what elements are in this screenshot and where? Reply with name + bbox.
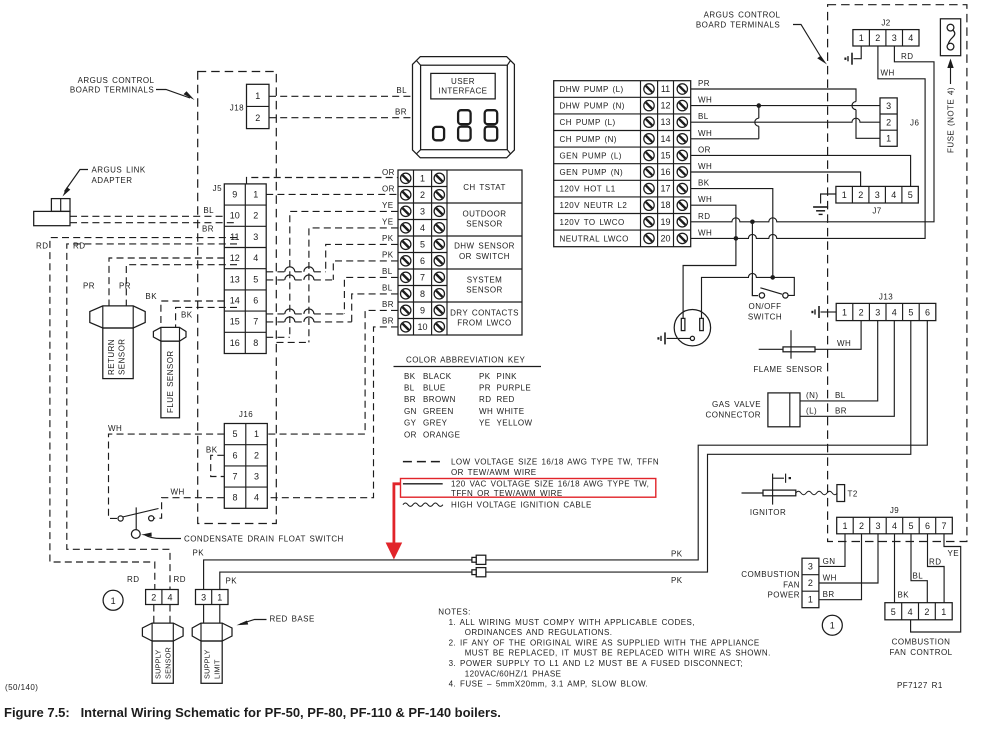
svg-text:OR: OR — [382, 184, 395, 193]
wire WH: terminal 20 to J2-2 — [691, 46, 925, 241]
svg-text:COMBUSTION: COMBUSTION — [892, 638, 951, 647]
flue sensor — [153, 327, 186, 417]
wire BL: J9-5 to fan control 2 — [911, 534, 927, 603]
svg-text:WH: WH — [171, 488, 185, 497]
wire: J5-8 stub lower — [277, 341, 309, 343]
svg-text:J7: J7 — [872, 207, 881, 216]
svg-text:20: 20 — [660, 233, 670, 243]
svg-text:3: 3 — [253, 232, 258, 242]
svg-text:BK: BK — [145, 292, 157, 301]
svg-text:YE: YE — [948, 549, 960, 558]
on/off switch — [748, 275, 794, 321]
svg-text:4. FUSE – 5mmX20mm, 3.1 A: 4. FUSE – 5mmX20mm, 3.1 AMP, SLOW BLOW. — [449, 680, 649, 689]
svg-text:ON/OFF: ON/OFF — [749, 302, 782, 311]
svg-text:4: 4 — [908, 607, 913, 617]
wire: WH junction to plug left prong — [683, 238, 736, 318]
svg-text:PR: PR — [698, 79, 710, 88]
svg-text:BL: BL — [382, 283, 393, 292]
svg-text:ORDINANCES AND REGULATIONS.: ORDINANCES AND REGULATIONS. — [465, 628, 613, 637]
svg-text:14: 14 — [230, 296, 240, 306]
svg-text:13: 13 — [660, 117, 670, 127]
svg-text:J16: J16 — [239, 410, 253, 419]
wire YE: to terminal 4 — [309, 217, 398, 342]
wire BR: gas valve (L) to J13-4 — [800, 321, 894, 417]
connector J7 — [836, 186, 918, 215]
svg-text:ORANGE: ORANGE — [423, 430, 460, 439]
combustion fan control connector — [885, 603, 953, 657]
wire BL: J18-1 to user interface — [269, 86, 413, 96]
connector J18 — [230, 84, 269, 128]
wire: J13-1 to ground — [821, 311, 837, 313]
svg-text:ARGUS LINK: ARGUS LINK — [92, 166, 146, 175]
svg-text:11: 11 — [230, 232, 239, 242]
label: RED BASE — [237, 615, 315, 626]
color abbreviation key — [394, 356, 542, 440]
wire: J5-5 hop line lower — [266, 275, 333, 280]
svg-text:OR: OR — [404, 430, 417, 439]
inline connector on lower PK wire — [472, 568, 486, 577]
label: ARGUS LINK ADAPTER — [63, 166, 146, 197]
svg-text:CH PUMP (L): CH PUMP (L) — [560, 118, 616, 127]
svg-text:2: 2 — [859, 521, 864, 531]
svg-text:RD: RD — [127, 575, 139, 584]
svg-text:BROWN: BROWN — [423, 395, 456, 404]
wire PR #1 (return sensor to J5-12) — [83, 258, 224, 306]
svg-text:3: 3 — [420, 206, 425, 216]
svg-text:BK: BK — [698, 179, 710, 188]
circled 1 (left) — [103, 590, 123, 610]
svg-text:SENSOR: SENSOR — [466, 286, 503, 295]
svg-text:BR: BR — [202, 225, 214, 234]
wire PK: supply limit 3 to J13-6 (120V) — [193, 321, 928, 590]
svg-text:1: 1 — [111, 596, 116, 606]
svg-text:4: 4 — [254, 493, 259, 503]
svg-text:WH: WH — [698, 129, 712, 138]
svg-text:ARGUS CONTROL: ARGUS CONTROL — [78, 76, 155, 85]
svg-text:2. IF ANY OF THE ORIGINAL: 2. IF ANY OF THE ORIGINAL WIRE AS SUPPLI… — [449, 638, 760, 647]
svg-text:OR: OR — [698, 145, 711, 154]
svg-text:13: 13 — [230, 274, 240, 284]
supply sensor connector (2,4) — [146, 590, 179, 605]
argus link adapter body — [34, 199, 70, 226]
condensate drain float switch — [118, 507, 159, 538]
svg-text:BK: BK — [898, 591, 910, 600]
svg-text:1: 1 — [255, 91, 260, 101]
wire: J7-1 to ground — [821, 194, 836, 204]
wire RD: terminal 19 to J2-3 — [691, 46, 934, 224]
svg-text:COMBUSTION: COMBUSTION — [741, 570, 800, 579]
svg-text:1: 1 — [830, 621, 835, 631]
svg-text:1. ALL WIRING MUST COMPY: 1. ALL WIRING MUST COMPY WITH APPLICABLE… — [449, 618, 695, 627]
svg-text:ADAPTER: ADAPTER — [92, 176, 133, 185]
svg-text:120 VAC VOLTAGE SIZE 16/18: 120 VAC VOLTAGE SIZE 16/18 AWG TYPE TW, — [451, 480, 649, 489]
svg-text:2: 2 — [886, 117, 891, 127]
svg-text:BR: BR — [382, 316, 394, 325]
wire RD #1 (supply sensor pin2 to J5-11) — [36, 238, 237, 590]
svg-text:TFFN OR TEW/AWM WIRE: TFFN OR TEW/AWM WIRE — [451, 489, 563, 498]
wire YE: to terminal 3 — [290, 201, 398, 337]
svg-text:11: 11 — [661, 84, 670, 94]
user interface display unit — [413, 57, 515, 158]
svg-text:BR: BR — [404, 395, 416, 404]
connector J16 — [224, 410, 267, 508]
inline connector on upper PK wire — [472, 555, 486, 564]
svg-text:PF7127 R1: PF7127 R1 — [897, 681, 943, 690]
svg-text:6: 6 — [253, 296, 258, 306]
svg-text:2: 2 — [253, 211, 258, 221]
svg-text:(N): (N) — [806, 391, 818, 400]
svg-text:7: 7 — [420, 272, 425, 282]
svg-text:8: 8 — [253, 338, 258, 348]
svg-text:16: 16 — [660, 167, 670, 177]
svg-text:BL: BL — [382, 267, 393, 276]
svg-text:PR: PR — [83, 282, 95, 291]
svg-text:RD: RD — [929, 558, 941, 567]
wire: J2-1 to ground — [854, 46, 862, 59]
svg-text:14: 14 — [660, 134, 670, 144]
svg-text:HIGH VOLTAGE IGNITION CABLE: HIGH VOLTAGE IGNITION CABLE — [451, 501, 592, 510]
notes text — [438, 608, 771, 689]
svg-text:WH: WH — [698, 228, 712, 237]
svg-text:INTERFACE: INTERFACE — [439, 87, 488, 96]
svg-text:FAN: FAN — [783, 580, 800, 589]
jumper BK: J16-6 to J16-7 — [206, 446, 224, 477]
high voltage ignition cable (wavy) — [796, 491, 838, 494]
wire: J5-8 stub upper — [266, 336, 290, 338]
wire BR: J18-2 to user interface — [269, 108, 413, 118]
svg-text:7: 7 — [941, 521, 946, 531]
svg-text:SUPPLY: SUPPLY — [203, 650, 212, 679]
supply limit — [192, 623, 232, 683]
svg-text:BL: BL — [203, 206, 214, 215]
svg-text:YE: YE — [479, 419, 491, 428]
legend: low voltage dashed sample — [403, 458, 659, 477]
svg-text:RD: RD — [698, 212, 710, 221]
wire BL: gas valve (N) to J13-3 — [800, 321, 878, 401]
wire YE: J9-7 to fan control 4 — [911, 534, 961, 632]
svg-text:PK: PK — [226, 577, 238, 586]
svg-text:(L): (L) — [806, 407, 817, 416]
svg-text:OUTDOOR: OUTDOOR — [462, 209, 506, 218]
svg-text:GY: GY — [404, 419, 417, 428]
wire BR: J9-2 to fan power 1 — [819, 534, 862, 600]
label: ARGUS CONTROL BOARD TERMINALS (left) — [70, 76, 195, 100]
svg-text:J18: J18 — [230, 104, 244, 113]
svg-text:WHITE: WHITE — [497, 407, 525, 416]
svg-text:SENSOR: SENSOR — [118, 339, 127, 376]
svg-text:DHW PUMP (N): DHW PUMP (N) — [560, 102, 625, 111]
svg-text:PK: PK — [193, 549, 205, 558]
svg-text:GREY: GREY — [423, 419, 448, 428]
svg-text:15: 15 — [230, 317, 240, 327]
svg-text:BK: BK — [206, 446, 218, 455]
svg-text:RD: RD — [479, 395, 491, 404]
svg-text:9: 9 — [420, 305, 425, 315]
circled 1 (right) — [822, 615, 842, 635]
svg-text:CONDENSATE DRAIN FLOAT SWIT: CONDENSATE DRAIN FLOAT SWITCH — [184, 535, 344, 544]
wire WH: J16-5 to float switch left — [108, 424, 224, 518]
wire RD: J9-6 to fan control 1 — [928, 534, 945, 603]
connector J13 — [836, 293, 936, 321]
svg-text:2: 2 — [859, 307, 864, 317]
svg-text:1: 1 — [808, 595, 813, 605]
svg-text:DHW SENSOR: DHW SENSOR — [454, 242, 515, 251]
svg-text:1: 1 — [842, 190, 847, 200]
wire OR: J5-1 to terminal 2 — [266, 184, 398, 194]
svg-text:PK: PK — [671, 550, 683, 559]
svg-text:BLACK: BLACK — [423, 372, 452, 381]
svg-text:WH: WH — [479, 407, 493, 416]
svg-text:3: 3 — [875, 307, 880, 317]
legend: 120 VAC solid sample (red boxed) — [401, 479, 656, 498]
svg-text:(50/140): (50/140) — [5, 683, 38, 692]
svg-text:BOARD TERMINALS: BOARD TERMINALS — [696, 21, 780, 30]
svg-text:FAN CONTROL: FAN CONTROL — [889, 648, 952, 657]
svg-text:120V NEUTR L2: 120V NEUTR L2 — [560, 201, 628, 210]
wire BK #1 (flue sensor to J5-14) — [145, 292, 224, 328]
svg-text:BR: BR — [382, 300, 394, 309]
svg-text:DHW PUMP (L): DHW PUMP (L) — [560, 85, 624, 94]
svg-text:PR: PR — [119, 282, 131, 291]
terminal strip TB1 (terminals 1-10) — [398, 170, 522, 335]
wire WH: terminal 12 to J6-3 — [691, 96, 880, 139]
svg-text:2: 2 — [255, 113, 260, 123]
svg-text:BL: BL — [396, 86, 407, 95]
svg-text:WH: WH — [698, 195, 712, 204]
svg-text:1: 1 — [420, 173, 425, 183]
svg-text:FUSE (NOTE 4): FUSE (NOTE 4) — [947, 87, 956, 153]
svg-text:YELLOW: YELLOW — [497, 419, 533, 428]
svg-text:3: 3 — [886, 101, 891, 111]
svg-text:1: 1 — [842, 307, 847, 317]
wire BK: terminal 17 to on/off switch — [691, 179, 773, 278]
svg-text:OR TEW/AWM WIRE: OR TEW/AWM WIRE — [451, 468, 537, 477]
power plug — [667, 310, 711, 346]
svg-text:4: 4 — [892, 521, 897, 531]
wire PR: terminal 11 to J6-1 — [691, 79, 880, 138]
wire: J5-7 hop line upper — [266, 309, 344, 314]
svg-text:2: 2 — [151, 593, 156, 603]
svg-text:RD: RD — [73, 242, 85, 251]
wire BR: to terminal 10 (via J16-4) — [267, 316, 398, 497]
svg-text:5: 5 — [891, 607, 896, 617]
terminal strip TB2 (terminals 11-20) — [554, 81, 691, 247]
svg-text:5: 5 — [232, 429, 237, 439]
ground (J2) — [844, 53, 852, 65]
svg-text:J9: J9 — [890, 506, 899, 515]
svg-text:3: 3 — [808, 562, 813, 572]
svg-text:4: 4 — [891, 190, 896, 200]
combustion fan power connector — [741, 558, 819, 608]
svg-text:PR: PR — [479, 384, 491, 393]
svg-text:RED BASE: RED BASE — [270, 615, 315, 624]
svg-text:FROM LWCO: FROM LWCO — [457, 319, 511, 328]
svg-text:BR: BR — [395, 108, 407, 117]
svg-text:SENSOR: SENSOR — [466, 220, 503, 229]
svg-text:SYSTEM: SYSTEM — [467, 275, 503, 284]
wire BR: to terminal 9 (via J16-1) — [267, 300, 398, 434]
svg-text:6: 6 — [420, 256, 425, 266]
svg-text:4: 4 — [167, 593, 172, 603]
svg-text:WH: WH — [698, 162, 712, 171]
svg-text:7: 7 — [232, 472, 237, 482]
svg-text:120V HOT L1: 120V HOT L1 — [560, 185, 616, 194]
svg-text:WH: WH — [108, 424, 122, 433]
svg-text:SWITCH: SWITCH — [748, 313, 782, 322]
svg-text:120VAC/60HZ/1 PHASE: 120VAC/60HZ/1 PHASE — [465, 669, 562, 678]
svg-text:CH PUMP (N): CH PUMP (N) — [560, 135, 617, 144]
svg-text:17: 17 — [660, 184, 670, 194]
svg-text:NEUTRAL LWCO: NEUTRAL LWCO — [560, 234, 629, 243]
svg-text:4: 4 — [908, 33, 913, 43]
transformer T2 — [837, 485, 858, 502]
wire GN: J9-1 to fan power 3 — [819, 534, 845, 567]
ignitor — [742, 474, 796, 517]
svg-text:2: 2 — [254, 450, 259, 460]
svg-text:COLOR ABBREVIATION KEY: COLOR ABBREVIATION KEY — [406, 356, 526, 365]
red arrow from legend to 120V wire — [386, 484, 403, 560]
connector J9 — [837, 506, 953, 534]
svg-text:BL: BL — [698, 112, 709, 121]
svg-text:12: 12 — [230, 253, 240, 263]
svg-text:RETURN: RETURN — [107, 339, 116, 375]
svg-text:CONNECTOR: CONNECTOR — [706, 411, 761, 420]
svg-text:WH: WH — [823, 574, 837, 583]
wire: RD junction to switch left terminal — [752, 222, 758, 296]
ground (plug) — [657, 332, 665, 344]
svg-text:OR: OR — [382, 168, 395, 177]
svg-text:6: 6 — [925, 521, 930, 531]
ground (J7) — [813, 207, 828, 214]
svg-text:5: 5 — [908, 521, 913, 531]
label: ARGUS CONTROL BOARD TERMINALS (right) — [696, 11, 827, 65]
wire: J5-5 hop line upper — [266, 267, 326, 272]
wire BL: to terminal 8 — [352, 283, 398, 322]
svg-text:19: 19 — [660, 217, 670, 227]
wire BK: J9-4 to fan control 5 — [895, 534, 910, 603]
svg-text:1: 1 — [941, 607, 946, 617]
wire WH: terminal 18 — [691, 195, 736, 238]
svg-text:6: 6 — [925, 307, 930, 317]
svg-text:PK: PK — [382, 234, 394, 243]
svg-text:GN: GN — [823, 557, 836, 566]
svg-text:5: 5 — [253, 274, 258, 284]
svg-text:MUST BE REPLACED, IT MUST: MUST BE REPLACED, IT MUST BE REPLACED WI… — [465, 649, 771, 658]
ground (J13) — [811, 306, 819, 318]
svg-text:10: 10 — [417, 322, 427, 332]
svg-text:8: 8 — [420, 289, 425, 299]
svg-text:WH: WH — [698, 96, 712, 105]
svg-text:FLAME SENSOR: FLAME SENSOR — [753, 365, 822, 374]
svg-text:6: 6 — [232, 450, 237, 460]
left dashed board outline — [198, 72, 277, 524]
wire BR: adapter to J5-11 — [70, 223, 237, 234]
wire PR #2 (return sensor to J5-12 lower) — [119, 265, 237, 306]
wire WH: J16-8 to float switch right — [154, 488, 225, 519]
svg-text:NOTES:: NOTES: — [438, 608, 470, 617]
svg-text:USER: USER — [451, 77, 475, 86]
svg-text:YE: YE — [382, 217, 394, 226]
svg-text:2: 2 — [924, 607, 929, 617]
svg-text:4: 4 — [253, 253, 258, 263]
svg-text:5: 5 — [908, 190, 913, 200]
svg-text:GREEN: GREEN — [423, 407, 454, 416]
svg-text:3: 3 — [875, 521, 880, 531]
svg-text:5: 5 — [420, 239, 425, 249]
wire BL: terminal 13 to J6-2 — [691, 112, 880, 122]
wire OR: terminal 15 to J7-5 — [691, 145, 911, 186]
right dashed board outline — [828, 5, 967, 542]
connector J6 — [880, 98, 919, 146]
svg-text:DRY CONTACTS: DRY CONTACTS — [450, 308, 519, 317]
svg-text:3: 3 — [254, 472, 259, 482]
wire PK: to terminal 6 — [333, 250, 398, 280]
wire: J5-7 hop line lower — [266, 317, 352, 322]
svg-text:18: 18 — [660, 200, 670, 210]
svg-text:BL: BL — [835, 391, 846, 400]
wire WH: J9-3 to fan power 2 — [819, 534, 878, 583]
svg-text:16: 16 — [230, 338, 240, 348]
svg-text:J5: J5 — [213, 184, 222, 193]
svg-text:LIMIT: LIMIT — [213, 659, 222, 679]
svg-text:FLUE SENSOR: FLUE SENSOR — [166, 350, 175, 413]
svg-text:GEN PUMP (N): GEN PUMP (N) — [560, 168, 624, 177]
wire PK: to terminal 5 — [326, 234, 398, 272]
wires: supply sensor connector to sensor — [153, 605, 155, 624]
svg-text:LOW VOLTAGE SIZE 16/18 AWG: LOW VOLTAGE SIZE 16/18 AWG TYPE TW, TFFN — [451, 458, 659, 467]
wire BL: to terminal 7 — [344, 267, 398, 314]
svg-text:BL: BL — [913, 572, 924, 581]
wire WH: flame sensor to J13-2 — [815, 321, 861, 350]
svg-text:2: 2 — [808, 578, 813, 588]
svg-text:BOARD TERMINALS: BOARD TERMINALS — [70, 86, 154, 95]
svg-text:IGNITOR: IGNITOR — [750, 508, 786, 517]
svg-text:9: 9 — [232, 190, 237, 200]
svg-text:YE: YE — [382, 201, 394, 210]
wire: plug right prong to switch junction — [702, 273, 773, 318]
svg-text:J13: J13 — [879, 293, 893, 302]
svg-text:2: 2 — [420, 190, 425, 200]
svg-text:BL: BL — [404, 384, 415, 393]
svg-text:POWER: POWER — [768, 591, 800, 600]
svg-text:Figure 7.5: Internal Wiring: Figure 7.5: Internal Wiring Schematic fo… — [4, 705, 501, 720]
svg-text:RD: RD — [174, 575, 186, 584]
svg-text:WH: WH — [837, 339, 851, 348]
svg-text:1: 1 — [859, 33, 864, 43]
svg-text:SUPPLY: SUPPLY — [154, 650, 163, 679]
label: FUSE (NOTE 4) with arrow — [947, 59, 956, 154]
svg-text:BK: BK — [181, 311, 193, 320]
svg-text:SENSOR: SENSOR — [164, 647, 173, 679]
svg-text:1: 1 — [254, 429, 259, 439]
flame sensor — [753, 330, 822, 374]
supply sensor — [142, 623, 183, 683]
svg-text:PK: PK — [479, 372, 491, 381]
svg-text:T2: T2 — [848, 490, 858, 499]
svg-text:GN: GN — [404, 407, 417, 416]
svg-text:2: 2 — [858, 190, 863, 200]
svg-text:7: 7 — [253, 317, 258, 327]
gas valve connector — [706, 393, 800, 427]
svg-text:4: 4 — [892, 307, 897, 317]
wire BK #2 (flue sensor to J5-14 lower) — [176, 307, 237, 327]
svg-text:1: 1 — [886, 134, 891, 144]
svg-text:3: 3 — [201, 593, 206, 603]
svg-text:OR SWITCH: OR SWITCH — [459, 252, 510, 261]
svg-text:PK: PK — [382, 250, 394, 259]
svg-text:BR: BR — [835, 407, 847, 416]
svg-text:PURPLE: PURPLE — [497, 384, 532, 393]
